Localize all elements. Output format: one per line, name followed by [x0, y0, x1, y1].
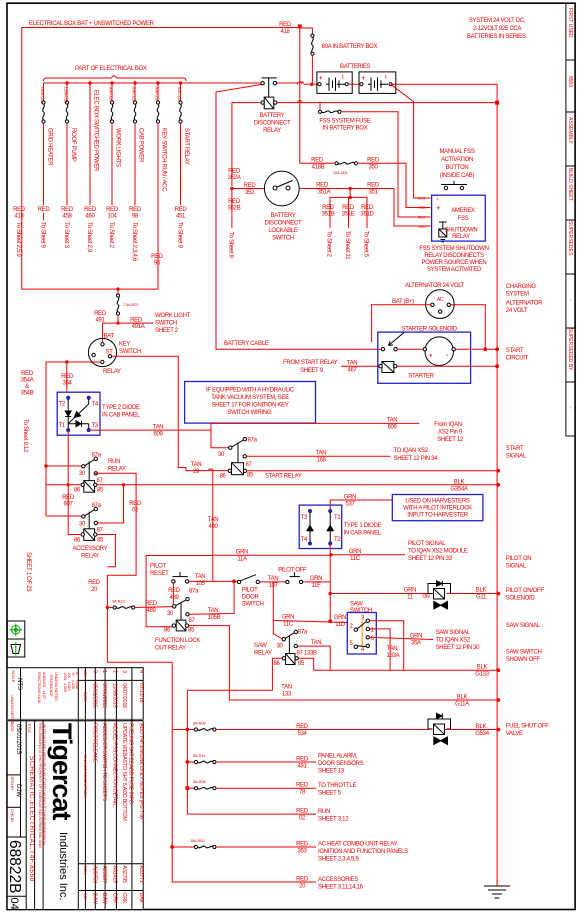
junction row2 [186, 760, 190, 764]
svg-text:11D: 11D [335, 622, 346, 628]
svg-text:MUST NOT BE USED OR DUPLICATED: MUST NOT BE USED OR DUPLICATED WITHOUT T… [42, 724, 47, 846]
svg-text:RED: RED [228, 169, 241, 175]
svg-text:350: 350 [368, 165, 378, 171]
svg-text:CRK: CRK [112, 893, 118, 904]
svg-text:USED ON HARVESTERS: USED ON HARVESTERS [405, 499, 469, 505]
svg-text:DISCONNECT: DISCONNECT [254, 121, 291, 127]
wire start relay 30 drop [211, 423, 229, 447]
svg-text:353: 353 [297, 849, 307, 855]
svg-text:609: 609 [387, 425, 397, 431]
svg-text:352B: 352B [228, 206, 241, 212]
svg-text:WORK LIGHTS: WORK LIGHTS [115, 128, 121, 167]
junction battery feed [310, 83, 313, 86]
svg-text:GRN: GRN [310, 576, 322, 582]
junction work light branch [116, 287, 119, 290]
svg-text:SHEET 17 FOR IGNITION KEY: SHEET 17 FOR IGNITION KEY [211, 403, 288, 409]
svg-text:354A: 354A [21, 378, 34, 384]
relay ACC: pin 87a [94, 507, 97, 510]
svg-text:537: 537 [345, 502, 355, 508]
wire pushbutton to relay 30 RED 489 [172, 583, 174, 605]
svg-text:CRK: CRK [121, 893, 127, 904]
solenoid FUEL SHUT OFF VALVE symbol [428, 713, 451, 744]
svg-text:ECN: ECN [83, 866, 88, 874]
fuse 3A-R08 [187, 787, 194, 789]
solenoid coil [379, 362, 397, 373]
svg-text:11F: 11F [312, 583, 322, 589]
svg-text:BLK: BLK [457, 695, 468, 701]
solenoid leader arrow [389, 333, 405, 346]
svg-text:RED: RED [13, 207, 26, 213]
pushbutton manual FSS [441, 181, 467, 190]
svg-text:SUPERSEDED BY: SUPERSEDED BY [567, 328, 573, 371]
svg-text:VALVE: VALVE [506, 731, 523, 737]
svg-text:RED: RED [84, 207, 97, 213]
junction row5 on bus A [170, 845, 174, 849]
wire RED 418B to fuse 10A-U04 [300, 162, 334, 164]
svg-text:11C: 11C [283, 622, 294, 628]
projection symbol circle [10, 624, 23, 637]
wire run relay 30 feed [46, 465, 82, 467]
pin ST [108, 355, 111, 358]
wire TAN105: button to door switch [189, 580, 238, 582]
svg-text:IN CAB PANEL: IN CAB PANEL [102, 413, 140, 419]
relay SAW: pin 87 [294, 644, 297, 647]
svg-text:351B: 351B [322, 212, 335, 218]
svg-text:150A-U22: 150A-U22 [40, 87, 45, 104]
wire motor to bus [455, 348, 497, 350]
hop battery wire over x=300 [298, 82, 303, 84]
svg-text:RUN: RUN [318, 809, 330, 815]
pin 2 [354, 628, 357, 631]
junction starter wire dots [483, 347, 487, 351]
svg-text:RED: RED [175, 207, 188, 213]
svg-text:60A-U19: 60A-U19 [155, 87, 160, 102]
svg-text:86: 86 [220, 474, 227, 480]
relay FUNCTION LOCKOUT: armature [180, 603, 182, 621]
svg-text:ROOF PUMP: ROOF PUMP [70, 128, 76, 162]
svg-text:0: 0 [92, 670, 98, 673]
pin 1 [366, 627, 369, 630]
svg-text:SHOWN OFF: SHOWN OFF [506, 657, 541, 663]
ground main bus [484, 886, 510, 898]
svg-text:07/12/16: 07/12/16 [138, 683, 144, 703]
svg-text:TOLERANCE: TOLERANCE [49, 674, 54, 697]
junction BLK G133 bus [496, 668, 500, 672]
svg-text:FROM START RELAY: FROM START RELAY [283, 360, 338, 366]
svg-text:Tigercat: Tigercat [47, 723, 77, 821]
wire row4 RED 02 [187, 813, 316, 815]
svg-text:ADD T4F ENGINE ONLY NOTES (PG.: ADD T4F ENGINE ONLY NOTES (PG.7-9) [138, 723, 144, 819]
svg-text:RED: RED [361, 205, 374, 211]
wire RED 353 [216, 846, 316, 848]
svg-text:85: 85 [188, 628, 195, 634]
wire RED 352B To Sheet 9 [231, 189, 233, 229]
relay ACC: pin 87 [94, 521, 97, 524]
svg-text:TO IQAN XS2 MODULE: TO IQAN XS2 MODULE [408, 549, 468, 555]
svg-text:PILOT SIGNAL: PILOT SIGNAL [408, 541, 446, 547]
svg-text:GRID HEATER: GRID HEATER [47, 128, 53, 166]
svg-text:85: 85 [97, 538, 104, 544]
fuse 150A-U22 [40, 83, 45, 205]
svg-text:490: 490 [208, 524, 218, 530]
relay ACC: arm [85, 510, 95, 516]
svg-text:2: 2 [112, 670, 118, 673]
svg-text:PILOT ON: PILOT ON [506, 556, 532, 562]
svg-text:20: 20 [299, 884, 306, 890]
junction pilot dot [232, 580, 236, 584]
svg-text:BLK: BLK [454, 479, 465, 485]
svg-text:125A-U16: 125A-U16 [64, 87, 69, 104]
svg-text:RED: RED [145, 601, 158, 607]
wire BLK G11 solenoid to bus [447, 593, 499, 595]
relay START: coil [232, 463, 244, 475]
svg-text:85: 85 [97, 488, 104, 494]
svg-text:T2: T2 [59, 402, 66, 408]
svg-text:96: 96 [154, 261, 161, 267]
svg-text:RED: RED [296, 842, 309, 848]
svg-text:TYPE 2 DIODE: TYPE 2 DIODE [102, 405, 140, 411]
diode D1 in type2 box [65, 399, 71, 424]
relay ACC: armature [88, 512, 90, 529]
diode left in type1 [307, 512, 313, 543]
relay SAW: armature [288, 636, 290, 654]
svg-text:02: 02 [299, 816, 306, 822]
svg-text:3A-R08: 3A-R08 [193, 779, 206, 784]
svg-text:G11A: G11A [455, 702, 469, 708]
svg-text:10A-R02: 10A-R02 [190, 838, 205, 843]
svg-text:G11: G11 [476, 595, 487, 601]
svg-text:352: 352 [245, 190, 255, 196]
wire electrical box bus [44, 82, 263, 84]
fuse 10A-U04 [335, 162, 338, 165]
pin T1 [66, 428, 70, 432]
junction run 30 feed [44, 464, 47, 467]
svg-text:To Sheet 2: To Sheet 2 [326, 231, 332, 258]
wire bus to disconnect contact [186, 82, 261, 84]
svg-text:133: 133 [282, 692, 292, 698]
relay SAW: arm [285, 633, 294, 639]
relay RUN: pin 87a [94, 457, 97, 460]
svg-text:BAT: BAT [104, 334, 115, 340]
svg-text:FSS SYSTEM SHUTDOWN: FSS SYSTEM SHUTDOWN [419, 246, 488, 252]
svg-text:START RELAY: START RELAY [183, 128, 189, 165]
junction GRN 11D [328, 619, 332, 623]
svg-text:05/01/2015: 05/01/2015 [15, 724, 21, 755]
alternator pins [431, 303, 434, 306]
battery B1 [317, 72, 352, 94]
svg-text:04/07/2016: 04/07/2016 [121, 683, 127, 708]
wire TAN 490 from TAN29 junction [212, 471, 214, 582]
svg-text:RED: RED [296, 783, 309, 789]
svg-text:534: 534 [297, 731, 307, 737]
svg-text:IGNITION AND FUNCTION PANEL: IGNITION AND FUNCTION PANELS [318, 849, 408, 855]
svg-text:TAN: TAN [208, 517, 219, 523]
svg-text:SYSTEM: SYSTEM [506, 292, 529, 298]
pin BAT [101, 343, 104, 346]
pin 5 [354, 645, 357, 648]
svg-text:8550: 8550 [567, 76, 573, 87]
wire fuse to battery junction [311, 55, 313, 84]
svg-text:RELAY: RELAY [108, 467, 126, 473]
wire RED 351D drop [366, 197, 368, 228]
svg-text:SHEET 12 PIN 34: SHEET 12 PIN 34 [394, 456, 439, 462]
wire RED 351A from lockable switch [299, 188, 394, 190]
junction row3 [186, 786, 190, 790]
svg-text:T1: T1 [334, 515, 341, 521]
svg-text:TAN: TAN [347, 361, 358, 367]
wire solenoid to motor [397, 348, 423, 350]
svg-text:DISCONNECT: DISCONNECT [265, 221, 302, 227]
svg-text:TAN: TAN [316, 451, 327, 457]
svg-text:RED: RED [88, 580, 101, 586]
fuse 3A-R13 [107, 607, 113, 609]
orange link in saw switch [361, 621, 363, 646]
svg-text:SIGNAL: SIGNAL [506, 454, 527, 460]
junction fuel valve on bus [496, 728, 500, 732]
svg-text:BLK: BLK [418, 196, 425, 201]
relay FUNCTION LOCKOUT: pin 87a [186, 597, 189, 600]
svg-text:RELAY: RELAY [103, 369, 121, 375]
wire saw relay 30 branch [273, 620, 282, 639]
svg-text:BAT (B+): BAT (B+) [392, 299, 414, 305]
wire TAN 168 from start relay 87 [247, 455, 391, 457]
wire door switch to pilot off [260, 581, 286, 583]
wire run relay 87 RED 02 [96, 473, 186, 882]
diode D2 diagonal in type2 box [68, 399, 89, 424]
svg-text:A33771: A33771 [138, 866, 144, 884]
svg-text:TAN: TAN [153, 425, 164, 431]
svg-text:SHEET 3,12: SHEET 3,12 [318, 817, 349, 823]
svg-text:G133: G133 [475, 672, 489, 678]
svg-text:RED: RED [129, 207, 142, 213]
wire RED351 branch to FSS box [394, 189, 431, 227]
svg-text:11C: 11C [350, 556, 361, 562]
wire RED 78 [216, 787, 316, 789]
wire branch to GRN 11C low [272, 582, 274, 621]
svg-text:RED: RED [61, 207, 74, 213]
svg-text:ALTERNATOR: ALTERNATOR [506, 301, 543, 307]
wire BLK G133 [314, 669, 499, 671]
svg-text:Industries Inc.: Industries Inc. [57, 832, 69, 900]
svg-text:40A-U15: 40A-U15 [177, 87, 182, 102]
pin 4 [366, 644, 369, 647]
wire battery to FSS drop [391, 84, 431, 198]
svg-text:35A: 35A [411, 641, 421, 647]
svg-text:T3: T3 [92, 423, 99, 429]
svg-text:RED: RED [130, 318, 143, 324]
svg-text:UPDATE WEBASTO SHT 5,ADD BOTTO: UPDATE WEBASTO SHT 5,ADD BOTTOM [121, 723, 127, 821]
svg-text:ALTERNATOR 24 VOLT: ALTERNATOR 24 VOLT [405, 283, 465, 289]
pin T4 [308, 542, 312, 546]
diode right in type1 [327, 512, 333, 543]
svg-text:PILOT ON/OFF: PILOT ON/OFF [506, 588, 545, 594]
svg-text:RED: RED [322, 205, 335, 211]
svg-text:SHEET 2: SHEET 2 [155, 328, 179, 334]
svg-text:418: 418 [280, 29, 290, 35]
junction RELAY/RED354 [65, 360, 68, 363]
wire battery disconnect relay contact to battery [277, 82, 298, 84]
svg-text:ADDED ER SWITCH TO SHEET 5: ADDED ER SWITCH TO SHEET 5 [101, 723, 107, 801]
wire RED 481 [216, 761, 316, 763]
svg-text:86: 86 [164, 628, 171, 634]
svg-text:OUT RELAY: OUT RELAY [155, 646, 186, 652]
svg-text:T1: T1 [59, 423, 66, 429]
svg-text:3A-R13: 3A-R13 [112, 599, 125, 604]
wire alternator B+ to solenoid [372, 305, 431, 342]
junction RED 491 [116, 321, 119, 324]
svg-text:RED: RED [244, 183, 257, 189]
wire alternator right to starter wire [451, 305, 486, 349]
fuse 60A in battery box [311, 34, 314, 37]
svg-text:RED: RED [168, 588, 181, 594]
solenoid contact [381, 348, 384, 351]
svg-text:5A-R09: 5A-R09 [193, 721, 206, 726]
svg-text:&: & [25, 384, 29, 390]
wire TAN 609 right segment [211, 423, 419, 430]
svg-text:PILOT: PILOT [242, 588, 258, 594]
fuse 5A-R14 [187, 761, 194, 763]
svg-text:To Sheet 11: To Sheet 11 [344, 231, 350, 260]
svg-text:489: 489 [146, 608, 156, 614]
pilot reset detour wire [146, 556, 213, 627]
relay START: pin 87 [243, 455, 246, 458]
svg-text:DATE: DATE [10, 722, 15, 732]
svg-text:RED: RED [94, 311, 107, 317]
svg-text:TAN: TAN [191, 462, 202, 468]
wire RED 96 [118, 123, 158, 289]
fuse 80A-U20 [109, 83, 114, 205]
svg-text:SHEET 9: SHEET 9 [300, 368, 324, 374]
right margin strip [566, 3, 575, 436]
svg-text:START: START [506, 446, 524, 452]
hop over x=300 vertical [298, 100, 303, 102]
svg-text:RED: RED [316, 183, 329, 189]
wire GRN 11F to vertical [303, 581, 330, 583]
relay ACC: coil box [84, 529, 95, 541]
wire GRN 11C to IQAN [330, 554, 405, 556]
svg-text:RED: RED [21, 371, 34, 377]
svg-text:80A-U20: 80A-U20 [109, 87, 114, 102]
svg-text:AC: AC [437, 297, 444, 303]
relay RUN: armature to coil [88, 461, 90, 480]
junction accessory 87 on 485 bus [122, 483, 125, 486]
svg-text:DOOR: DOOR [242, 595, 260, 601]
svg-text:To Sheet 2,5,9: To Sheet 2,5,9 [15, 222, 21, 257]
svg-text:RED: RED [228, 199, 241, 205]
starter motor [425, 337, 454, 366]
svg-text:To Sheet 9: To Sheet 9 [177, 222, 183, 249]
svg-text:RED: RED [129, 501, 142, 507]
wire fuse bus B [186, 730, 188, 815]
svg-text:87a: 87a [92, 503, 102, 509]
svg-text:(INSIDE CAB): (INSIDE CAB) [440, 173, 475, 179]
svg-text:SWITCH WIRING.: SWITCH WIRING. [227, 410, 273, 416]
title block grid [7, 668, 143, 910]
svg-text:SWITCH: SWITCH [242, 602, 264, 608]
relay START: armature [237, 443, 239, 463]
wire fuse to FSS box [341, 112, 431, 217]
svg-text:RELAY: RELAY [263, 128, 281, 134]
wire diode T1 down to run relay bus [67, 430, 69, 485]
wire accessory 87 up to 485 bus [98, 485, 124, 523]
wire RED 418 top unswitched power [22, 28, 300, 290]
pin T2 [328, 542, 332, 546]
relay ACC: pin 30 [82, 515, 85, 518]
svg-text:DJW: DJW [15, 784, 21, 797]
svg-text:BLK: BLK [476, 588, 487, 594]
wire coil right to bus [277, 102, 495, 104]
svg-text:SAW SIGNAL: SAW SIGNAL [436, 630, 471, 636]
relay RUN: pin 87 [94, 472, 97, 475]
svg-text:SYSTEM ACTIVATED: SYSTEM ACTIVATED [427, 267, 482, 273]
relay START: pin 30 [229, 446, 232, 449]
svg-text:29: 29 [193, 469, 200, 475]
wire key switch ST to TAN 609 [112, 356, 179, 430]
fuse 60A-U21 [132, 83, 137, 205]
svg-text:RED: RED [38, 207, 51, 213]
svg-text:RUN: RUN [108, 459, 120, 465]
pin 6 [366, 636, 369, 639]
svg-text:87: 87 [97, 478, 104, 484]
svg-text:352A: 352A [228, 175, 241, 181]
svg-text:68822B: 68822B [6, 840, 23, 893]
relay START: arm [232, 440, 244, 447]
svg-text:RED: RED [418, 205, 426, 210]
relay RUN: coil terminals [81, 483, 84, 486]
svg-text:To Sheet 9: To Sheet 9 [228, 232, 234, 259]
pin T2 [66, 396, 70, 400]
svg-text:SHEET 13: SHEET 13 [318, 769, 345, 775]
svg-text:IN CAB PANEL: IN CAB PANEL [344, 531, 382, 537]
diode box TYPE 2 [57, 392, 100, 435]
svg-text:TAN: TAN [208, 608, 219, 614]
svg-text:WITH A PILOT INTERLOCK: WITH A PILOT INTERLOCK [403, 506, 472, 512]
svg-text:ADDED FSS CONNECTION DETAIL: ADDED FSS CONNECTION DETAIL [112, 723, 118, 806]
svg-text:UNLESS NOTED: UNLESS NOTED [54, 672, 59, 701]
wire ELEC BOX SWITCHED POWER (no fuse) [89, 83, 91, 205]
relay FUNCTION LOCKOUT: coil [176, 620, 186, 631]
svg-text:TITLE: TITLE [27, 723, 32, 733]
junction top right of RED 418 [298, 24, 302, 28]
svg-text:WORK LIGHT: WORK LIGHT [155, 313, 191, 319]
svg-text:460: 460 [85, 214, 95, 220]
wire GRN 537 [330, 500, 392, 511]
svg-text:GRN: GRN [282, 615, 294, 621]
fuse 7.5A-R22 [116, 289, 139, 323]
svg-text:ACCESSORIES: ACCESSORIES [318, 877, 358, 883]
revision row 0 [92, 670, 145, 905]
svg-text:UNLESS NOTED: UNLESS NOTED [10, 695, 15, 724]
pin 3 [366, 619, 369, 622]
wire RED 418 down to 60A fuse [300, 28, 313, 34]
relay BATTERY DISCONNECT contact [261, 82, 264, 85]
svg-text:INPUT TO HARVESTER: INPUT TO HARVESTER [407, 513, 468, 519]
svg-text:To Sheet 2: To Sheet 2 [108, 222, 114, 249]
junction RED 351 fanout [349, 187, 352, 190]
svg-text:-: - [437, 197, 439, 203]
pin T3 [308, 509, 312, 513]
junction bus dots [65, 81, 68, 84]
junction coil wire to bus [495, 101, 499, 105]
svg-text:ANGLES ±1/2°: ANGLES ±1/2° [42, 672, 47, 700]
svg-text:60A IN BATTERY BOX: 60A IN BATTERY BOX [322, 44, 378, 50]
relay SAW: pin 87a [294, 630, 297, 633]
svg-text:BLK: BLK [477, 665, 488, 671]
svg-text:XS2 Pin 9: XS2 Pin 9 [438, 430, 463, 436]
relay FSS shutdown symbol [439, 222, 447, 242]
svg-text:4: 4 [138, 670, 144, 673]
svg-text:TAN: TAN [281, 685, 292, 691]
